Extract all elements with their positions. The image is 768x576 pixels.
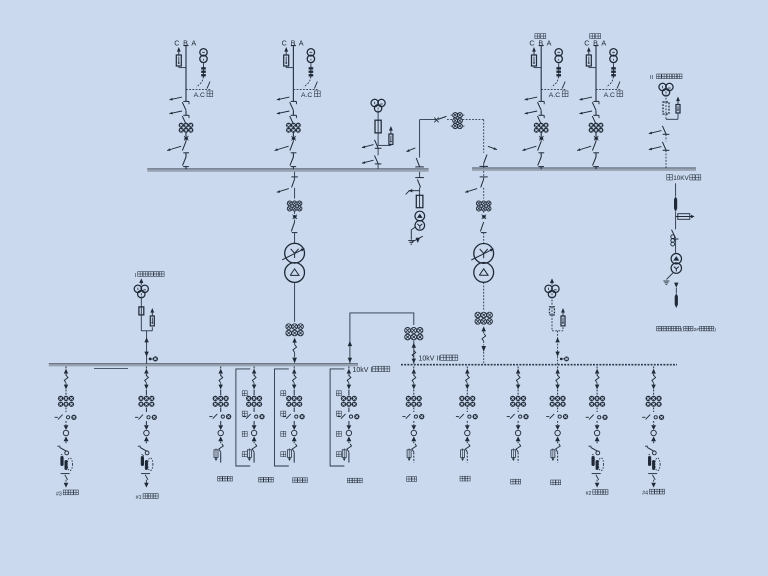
current transformer T1 LV CT bbox=[286, 324, 292, 330]
svg-text:C B A: C B A bbox=[282, 38, 305, 47]
drawout contact bbox=[595, 375, 599, 382]
surge arrester WL1 bbox=[177, 47, 181, 52]
earthing hook and arrow bbox=[61, 473, 70, 475]
svg-text:A.C: A.C bbox=[549, 92, 560, 99]
incoming line WL4 cable head bbox=[593, 45, 598, 47]
label 备用 bbox=[460, 476, 470, 481]
cable segment bbox=[675, 288, 677, 293]
outgoing feeder 出线二 bbox=[243, 367, 265, 463]
current transformer CT bbox=[510, 396, 515, 401]
drawout contact bbox=[219, 375, 223, 382]
arrow to bus bbox=[651, 369, 655, 374]
arrows and contact to bus bbox=[482, 326, 486, 331]
capacitor feeder #2 (future) bbox=[586, 367, 608, 488]
disconnector PT QS1 bbox=[375, 147, 382, 149]
label 备用 (spare) bbox=[535, 34, 540, 39]
switch contact bbox=[516, 444, 521, 453]
drawout contact bbox=[64, 375, 68, 382]
wire feeder drop bbox=[413, 367, 415, 369]
breaker truck triangles bbox=[347, 425, 352, 430]
label 出线一 bbox=[218, 476, 233, 481]
incoming line WL2 cable head bbox=[291, 45, 296, 47]
arrow to bus bbox=[252, 369, 256, 374]
capacitor bank dashed bbox=[655, 458, 660, 471]
breaker mark bbox=[434, 118, 438, 123]
reactor coil bbox=[592, 456, 595, 466]
svg-text:2#: 2# bbox=[694, 327, 700, 333]
bracket group 2 bbox=[236, 369, 250, 466]
fuse section PT fuse bbox=[550, 307, 555, 315]
arrow down bbox=[219, 385, 223, 390]
breaker truck triangles bbox=[64, 425, 69, 430]
svg-text:A.C: A.C bbox=[301, 92, 312, 99]
voltage transformer 3-winding section PT bbox=[545, 285, 552, 292]
circuit breaker WL3 bbox=[539, 136, 543, 140]
cable CT small bbox=[288, 450, 292, 458]
reactor coil bbox=[648, 456, 651, 466]
breaker truck triangles bbox=[555, 425, 560, 430]
wire WL1 dashed drop to AC cabinet bbox=[197, 77, 204, 87]
label 施工电源变(兼作2#站用变) bbox=[657, 326, 662, 331]
drawout contact bbox=[466, 375, 470, 382]
arrow to bus bbox=[412, 369, 416, 374]
incoming feeder WL3 (spare) bbox=[522, 46, 565, 170]
wire jumper bbox=[350, 313, 414, 364]
outgoing feeder 出线四 bbox=[338, 367, 360, 463]
cable CT small bbox=[461, 450, 465, 458]
switch contact bbox=[347, 444, 352, 453]
disconnector tie right bbox=[488, 146, 497, 149]
incoming line WL3 cable head bbox=[539, 45, 544, 47]
svg-text:#3: #3 bbox=[56, 491, 62, 497]
indicator small circle-x at bus bbox=[149, 358, 151, 360]
label #2电容器 bbox=[586, 490, 608, 497]
label #3电容器 bbox=[56, 490, 78, 497]
switch contact bbox=[589, 445, 592, 447]
circuit breaker WL4 bbox=[594, 136, 598, 140]
current transformer CT bbox=[246, 396, 251, 401]
arrow down bbox=[292, 385, 296, 390]
main transformer T2 column (dashed/future) bbox=[465, 171, 494, 364]
label 备用 bbox=[407, 477, 417, 482]
svg-text:II: II bbox=[650, 75, 654, 81]
current transformer CT bbox=[138, 396, 143, 401]
fuse truck row bbox=[243, 416, 246, 418]
switch contact bbox=[292, 444, 297, 453]
current transformer tie CT (2x3 vertical) bbox=[453, 113, 458, 118]
disconnector WL4 QS2 bbox=[593, 114, 599, 116]
current transformer WL4 CT bbox=[589, 123, 594, 128]
label #4电容器 bbox=[642, 489, 664, 496]
switch contact bbox=[57, 445, 60, 447]
disconnector WL1 QS2 bbox=[183, 114, 189, 116]
incoming feeder WL1 bbox=[167, 46, 210, 170]
switch contact bbox=[219, 444, 224, 453]
fuse truck row bbox=[507, 416, 510, 418]
earthing hook and arrow bbox=[592, 473, 601, 475]
switch contact bbox=[556, 444, 561, 453]
label 备用 bbox=[551, 480, 561, 485]
arrow down bbox=[595, 385, 599, 390]
breaker truck triangles bbox=[252, 425, 257, 430]
bus PT branch top-right bus (II段母线设备) bbox=[650, 74, 682, 81]
arrow pair stem bbox=[144, 337, 148, 342]
incoming feeder WL2 / transformer T1 HV bbox=[275, 46, 318, 170]
current transformer WL3 CT bbox=[534, 123, 539, 128]
fuse truck row bbox=[338, 416, 341, 418]
fuse truck row bbox=[135, 416, 138, 418]
fuse WL2 VT fuse bbox=[310, 66, 312, 77]
fuse truck row bbox=[546, 416, 549, 418]
construction power transformer column (right) bbox=[657, 174, 717, 332]
voltage transformer WL2 bbox=[307, 49, 314, 56]
earthing hook and arrow bbox=[648, 473, 657, 475]
arrow to bus bbox=[219, 369, 223, 374]
cable CT small bbox=[342, 450, 346, 458]
breaker truck triangles bbox=[292, 425, 297, 430]
arrow to bus bbox=[144, 369, 148, 374]
surge arrester bbox=[676, 97, 680, 102]
arrows and contact to bus bbox=[292, 338, 296, 343]
wire join bbox=[378, 144, 391, 146]
drawout contact bbox=[293, 375, 297, 382]
cable CT small bbox=[407, 450, 411, 458]
incoming feeder WL4 (spare) bbox=[577, 46, 620, 170]
busbar 10kV top bus section II (right) bbox=[472, 168, 696, 171]
disconnector WL4 QS4 bus side bbox=[593, 157, 597, 166]
drawout contact bbox=[516, 375, 520, 382]
switch contact bbox=[465, 444, 470, 453]
disconnector bbox=[417, 179, 420, 187]
fuse bbox=[663, 102, 669, 114]
fuse truck row bbox=[642, 416, 645, 418]
wire WL4 dashed drop to AC cabinet bbox=[607, 77, 614, 87]
switch contact bbox=[252, 444, 257, 453]
arrow to bus bbox=[555, 369, 559, 374]
fuse truck row bbox=[456, 416, 459, 418]
wire WL3 dashed drop to AC cabinet bbox=[552, 77, 559, 87]
bracket 同出线一 group marker bbox=[275, 369, 289, 466]
disconnector WL2 QS2 bbox=[291, 114, 297, 116]
voltage transformer WL1 bbox=[200, 49, 207, 56]
fuse bus PT fuse bbox=[375, 120, 381, 133]
arrows right riser bbox=[412, 343, 416, 348]
surge arrester section arrester bbox=[561, 308, 565, 313]
voltage transformer 3-winding bus PT bbox=[371, 99, 378, 106]
arrow down bbox=[651, 385, 655, 390]
wire WL1 main vertical bbox=[185, 46, 187, 101]
arrows left riser bbox=[348, 341, 352, 346]
current transformer WL2 CT bbox=[286, 123, 291, 128]
arrow down bbox=[347, 385, 351, 390]
svg-text:#4: #4 bbox=[642, 491, 648, 497]
indicator small circle-x at bus bbox=[560, 358, 562, 360]
earthing hook and arrow bbox=[141, 473, 150, 475]
arrow to bus bbox=[516, 369, 520, 374]
cable segment bbox=[675, 183, 677, 196]
earthing switch bbox=[409, 190, 420, 192]
disconnector bbox=[672, 230, 676, 239]
switch contact bbox=[645, 445, 648, 447]
wire feeder drop bbox=[466, 367, 468, 369]
station service transformer #1 (below left bus at tie column) bbox=[406, 172, 425, 244]
surge arrester WL2 bbox=[284, 47, 288, 52]
wire feeder drop bbox=[253, 367, 255, 369]
arrow line tap bbox=[550, 278, 554, 283]
spare feeder 2 bbox=[456, 367, 478, 463]
disconnector WL3 QS1 bbox=[539, 100, 545, 102]
label 出线三 bbox=[293, 478, 308, 483]
svg-text:C B A: C B A bbox=[174, 38, 197, 47]
breaker truck triangles bbox=[465, 425, 470, 430]
circuit breaker WL2 bbox=[292, 136, 296, 140]
busbar 10kV II section (lower right, dashed/future) bbox=[401, 364, 677, 366]
fuse truck row bbox=[586, 416, 589, 418]
fuse WL3 VT fuse bbox=[558, 66, 560, 77]
wire feeder drop bbox=[220, 367, 222, 369]
wire underline segment bbox=[94, 367, 128, 369]
label 到10KV线路 bbox=[667, 174, 673, 180]
wire feeder drop bbox=[596, 367, 598, 369]
arrow pair stem bbox=[555, 337, 559, 342]
disconnector WL1 QS4 bus side bbox=[183, 157, 187, 166]
voltage transformer WL3 bbox=[555, 49, 562, 56]
disconnector bbox=[291, 222, 294, 231]
current transformer CT bbox=[646, 396, 651, 401]
svg-text:A.C: A.C bbox=[194, 92, 205, 99]
svg-text:C B A: C B A bbox=[584, 38, 607, 47]
svg-text:A.C: A.C bbox=[604, 92, 615, 99]
svg-text:10KV: 10KV bbox=[673, 175, 689, 182]
breaker truck triangles bbox=[218, 425, 223, 430]
drawout contact bbox=[252, 375, 256, 382]
wire feeder drop bbox=[145, 367, 147, 369]
switch contact bbox=[412, 444, 417, 453]
transformer T-stn1 bbox=[415, 211, 425, 221]
voltage transformer 3-winding section PT bbox=[134, 285, 141, 292]
current transformer CT bbox=[58, 396, 63, 401]
arrow down bbox=[465, 385, 469, 390]
arrow down bbox=[64, 385, 68, 390]
capacitor feeder #4 (future) bbox=[642, 367, 664, 488]
arrow to bus bbox=[465, 369, 469, 374]
bus PT branch top-left bus bbox=[362, 99, 393, 169]
fuse truck row bbox=[402, 416, 405, 418]
wire WL2 dashed drop to AC cabinet bbox=[304, 77, 311, 87]
capacitor feeder #1 bbox=[135, 367, 157, 488]
current transformer CT bbox=[459, 396, 464, 401]
transformer T2 bbox=[474, 244, 494, 264]
wire WL2 main vertical bbox=[292, 46, 294, 101]
arrester coil bbox=[671, 235, 675, 239]
main transformer T1 column bbox=[277, 172, 305, 364]
fuse truck row bbox=[283, 416, 286, 418]
bus tie jumper bottom (bridge bus I to bus II) bbox=[348, 313, 423, 364]
disconnector WL1 QS3 bbox=[183, 152, 189, 154]
bus tie jumper top (bridge between bus I and bus II) bbox=[406, 113, 497, 168]
current transformer T2 LV CT bbox=[475, 312, 481, 318]
arrow down bbox=[252, 385, 256, 390]
wire feeder drop bbox=[65, 367, 67, 369]
drawout contact bbox=[145, 375, 149, 382]
disconnector WL3 QS2 bbox=[539, 114, 545, 116]
label 备用 bbox=[511, 479, 521, 484]
spare feeder 1 bbox=[402, 367, 424, 463]
arrow to bus bbox=[64, 369, 68, 374]
current transformer CT bbox=[406, 396, 411, 401]
current transformer T2 HV CT bbox=[476, 201, 481, 206]
surge arrester bus PT arrester bbox=[389, 126, 393, 131]
bracket 同出线一 group marker bbox=[330, 369, 344, 466]
label 10kV I 段母线 bbox=[353, 366, 390, 374]
wire join bbox=[141, 330, 152, 332]
surge arrester WL4 bbox=[587, 47, 591, 52]
bracket group 4 bbox=[330, 369, 344, 466]
arrow line tap bbox=[139, 278, 143, 283]
label 出线四 bbox=[347, 478, 362, 483]
arrow to bus bbox=[347, 369, 351, 374]
arrow down bbox=[412, 385, 416, 390]
wire feeder drop bbox=[653, 367, 655, 369]
circuit breaker WL1 bbox=[184, 136, 188, 140]
svg-text:10kV I: 10kV I bbox=[353, 367, 373, 374]
disconnector T1 HV bbox=[294, 172, 296, 179]
disconnector WL2 QS3 bbox=[291, 152, 297, 154]
current transformer WL1 CT bbox=[179, 123, 184, 128]
fuse WL1 VT fuse bbox=[203, 66, 205, 77]
disconnector bbox=[663, 149, 670, 151]
spare feeder 4 bbox=[546, 367, 568, 463]
arrow down bbox=[555, 385, 559, 390]
disconnector T2 HV bbox=[483, 171, 485, 179]
drawout contact bbox=[652, 375, 656, 382]
bracket group 3 bbox=[275, 369, 289, 466]
section II PT branch (lower bus) bbox=[545, 278, 569, 364]
fuse truck row bbox=[209, 416, 212, 418]
breaker truck triangles bbox=[144, 425, 149, 430]
arrow to bus bbox=[292, 369, 296, 374]
breaker mark bbox=[293, 215, 297, 219]
current transformer CT bbox=[286, 396, 291, 401]
breaker mark bbox=[482, 215, 486, 219]
svg-text:#2: #2 bbox=[586, 491, 592, 497]
busbar 10kV I section (lower left, solid) bbox=[49, 364, 358, 369]
ground bbox=[666, 273, 673, 280]
current transformer CT bbox=[550, 396, 555, 401]
reactor coil bbox=[141, 456, 144, 466]
fuse WL4 VT fuse bbox=[613, 66, 615, 77]
breaker truck triangles bbox=[411, 425, 416, 430]
disconnector WL4 QS1 bbox=[593, 100, 599, 102]
indicator circle-x above bus I at capacitor 1 bbox=[149, 357, 158, 362]
disconnector WL3 QS4 bus side bbox=[538, 157, 542, 166]
busbar 10kV top bus section I (left) bbox=[147, 169, 428, 172]
disconnector bbox=[480, 222, 483, 231]
current transformer CT bbox=[589, 396, 594, 401]
surge arrester section arrester bbox=[150, 308, 154, 313]
arrow down bbox=[516, 385, 520, 390]
disconnector WL2 QS4 bus side bbox=[290, 157, 294, 166]
drawout contact bbox=[347, 375, 351, 382]
disconnector WL1 QS1 bbox=[183, 100, 189, 102]
transformer construction power bbox=[671, 254, 681, 264]
current transformer tie CT bbox=[405, 328, 411, 334]
label 备用 (spare) bbox=[590, 34, 595, 39]
drawout contact bbox=[412, 375, 416, 382]
reactor coil bbox=[60, 456, 63, 466]
wire feeder drop bbox=[293, 367, 295, 369]
disconnector PT QS2 bbox=[375, 163, 382, 165]
svg-text:#1: #1 bbox=[136, 495, 142, 501]
wire feeder drop bbox=[517, 367, 519, 369]
voltage transformer WL4 bbox=[610, 49, 617, 56]
wire WL3 main vertical bbox=[540, 46, 542, 101]
fuse bbox=[416, 195, 423, 207]
switch contact bbox=[138, 445, 141, 447]
wire WL4 main vertical bbox=[595, 46, 597, 101]
voltage transformer 3-winding bus II PT bbox=[659, 83, 666, 90]
label 10kV II 段母线 bbox=[419, 355, 458, 363]
capacitor bank dashed bbox=[67, 458, 72, 471]
svg-text:C B A: C B A bbox=[529, 38, 552, 47]
wire left riser bbox=[415, 166, 424, 168]
cable CT small bbox=[214, 450, 218, 458]
svg-text:10kV II: 10kV II bbox=[419, 356, 441, 363]
fuse horizontal bbox=[675, 213, 677, 216]
capacitor bank dashed bbox=[148, 458, 153, 471]
label #1电容器 bbox=[136, 494, 158, 501]
bracket 同出线一 group marker bbox=[236, 369, 250, 466]
breaker truck triangles bbox=[651, 425, 656, 430]
spare feeder 3 bbox=[507, 367, 529, 463]
current transformer CT bbox=[341, 396, 346, 401]
capacitor bank dashed bbox=[598, 458, 603, 471]
drawout contact bbox=[556, 375, 560, 382]
breaker truck triangles bbox=[516, 425, 521, 430]
cable CT small bbox=[551, 450, 555, 458]
cable CT small bbox=[247, 450, 251, 458]
wire join bbox=[552, 330, 563, 332]
wire dashed to bus II bbox=[447, 119, 453, 121]
disconnector WL3 QS3 bbox=[539, 152, 545, 154]
incoming line WL1 cable head bbox=[183, 45, 188, 47]
wire feeder drop bbox=[557, 367, 559, 369]
wire feeder drop bbox=[348, 367, 350, 369]
outgoing feeder 出线三 bbox=[283, 367, 305, 463]
outgoing feeder 出线一 bbox=[209, 367, 231, 463]
arrow down bbox=[144, 385, 148, 390]
disconnector bbox=[663, 133, 670, 135]
capacitor feeder #3 (future) bbox=[55, 367, 77, 488]
transformer T1 bbox=[285, 243, 305, 263]
section I PT branch (lower bus) bbox=[134, 272, 164, 364]
cable CT small bbox=[511, 450, 515, 458]
disconnector tie blade bbox=[438, 116, 447, 119]
label 出线二 bbox=[259, 477, 274, 482]
fuse truck row bbox=[55, 416, 58, 418]
arrow to bus bbox=[595, 369, 599, 374]
disconnector WL2 QS1 bbox=[291, 100, 297, 102]
disconnector WL4 QS3 bbox=[593, 152, 599, 154]
fuse section PT fuse bbox=[139, 307, 144, 315]
surge arrester WL3 bbox=[532, 47, 536, 52]
current transformer CT bbox=[213, 396, 218, 401]
ground bbox=[411, 227, 415, 240]
breaker truck triangles bbox=[595, 425, 600, 430]
current transformer T1 HV CT bbox=[287, 201, 292, 206]
